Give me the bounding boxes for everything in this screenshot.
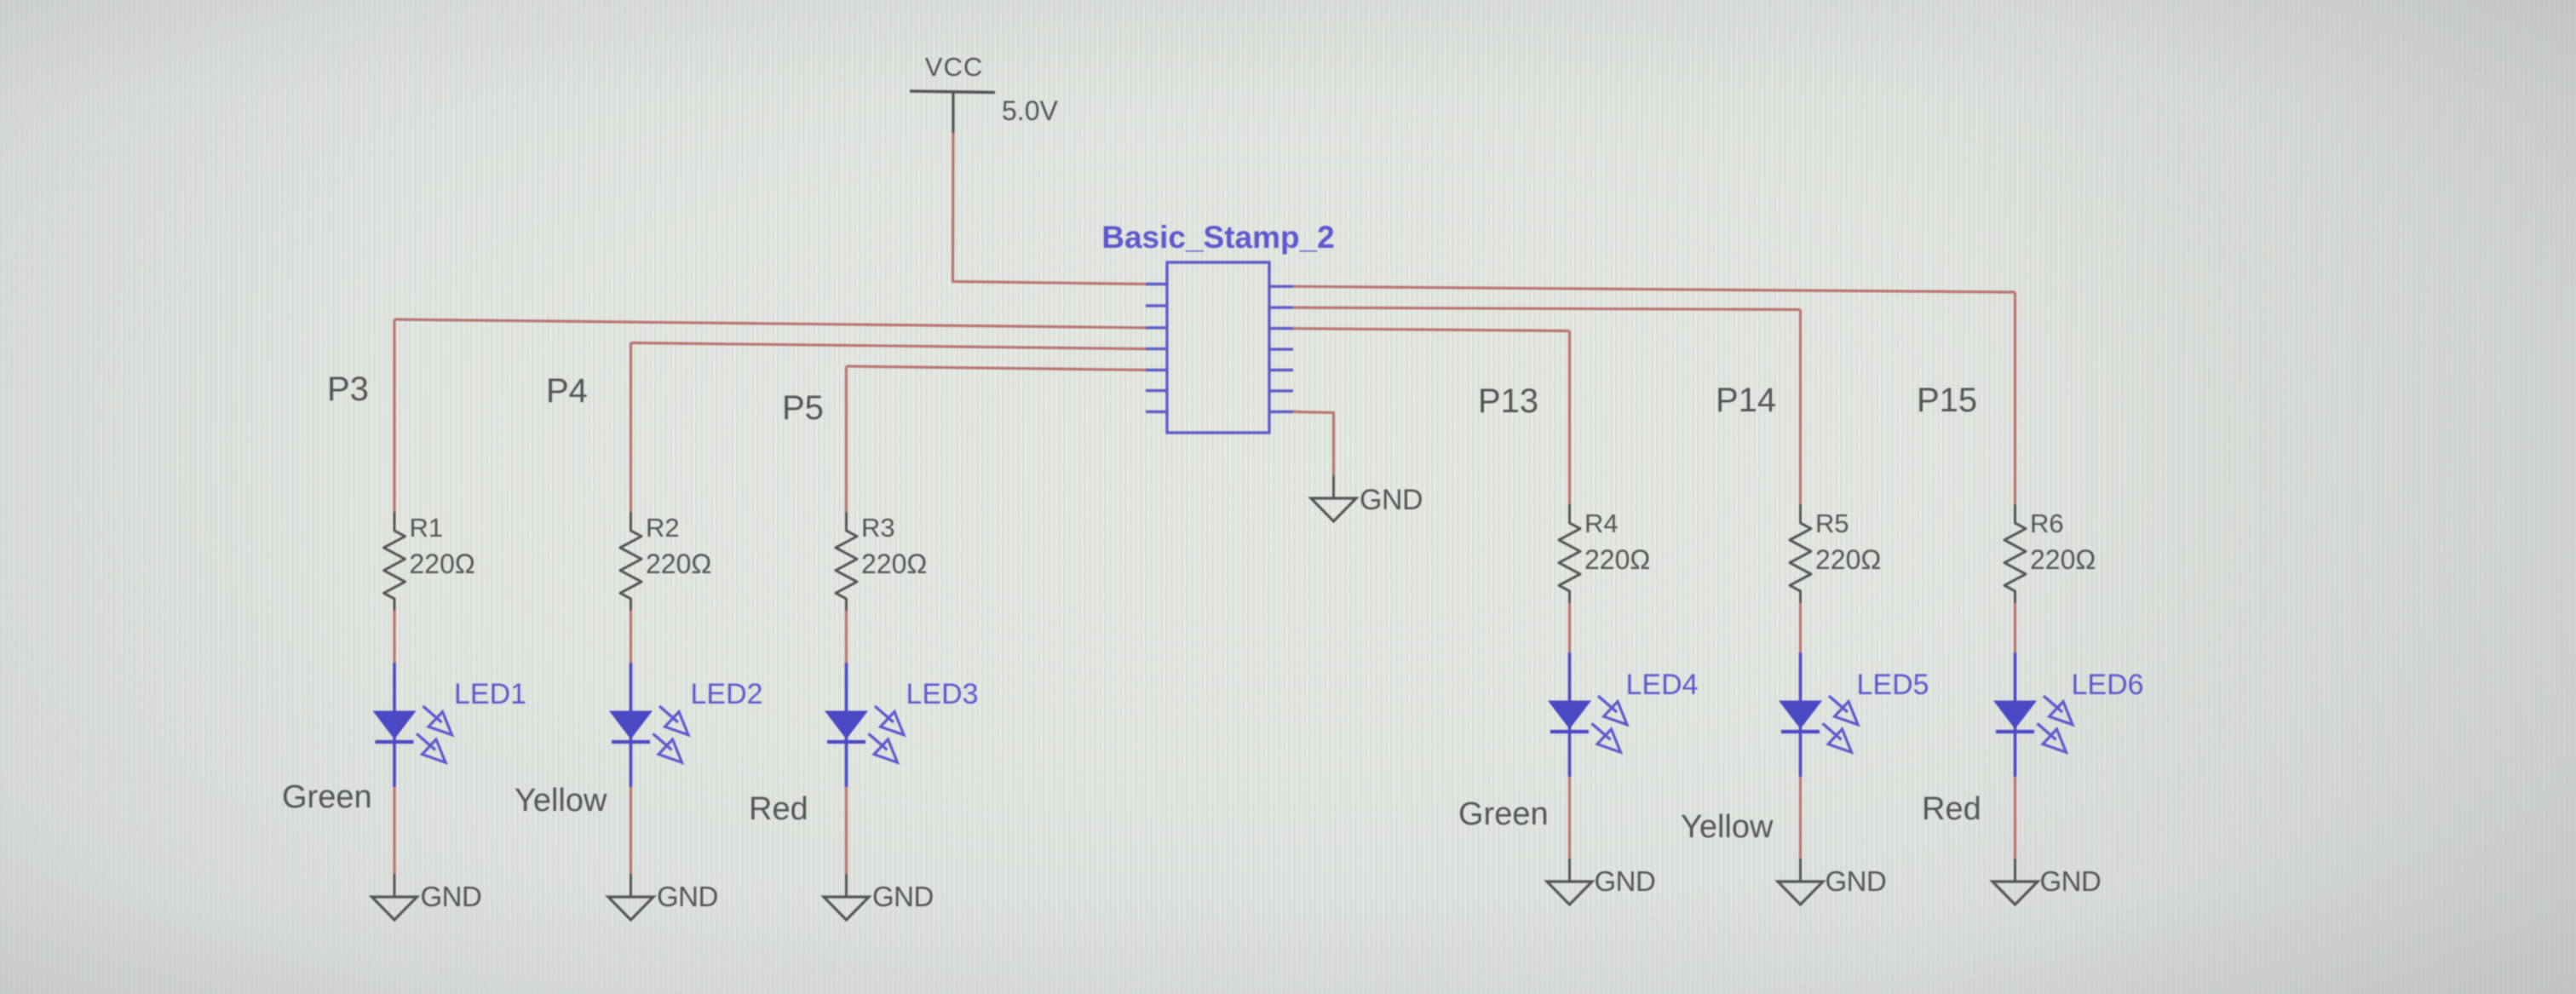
wire LED4 to ground [1568, 777, 1571, 859]
wire R6 to LED6 [2014, 603, 2016, 652]
LED LED5 [1780, 652, 1929, 777]
wire P5 from U1 [847, 366, 1147, 370]
LED LED6 [1994, 652, 2144, 777]
wire LED6 to ground [2014, 777, 2016, 859]
wire P4 down to R2 [630, 343, 632, 513]
resistor R4 [1559, 504, 1650, 603]
ground below LED6 [1992, 859, 2101, 905]
wire R1 to LED1 [393, 611, 395, 663]
resistor R6 [2004, 504, 2096, 603]
wire P3 from U1 [394, 319, 1146, 328]
wire R2 to LED2 [630, 611, 632, 663]
ground below LED5 [1778, 859, 1886, 905]
wire P13 down to R4 [1568, 331, 1571, 505]
resistor R5 [1790, 504, 1881, 603]
wire P14 from U1 [1293, 307, 1801, 309]
wire P5 down to R3 [845, 366, 848, 512]
resistor R2 [620, 512, 711, 611]
wire P15 from U1 [1293, 286, 2015, 292]
ground at U1 [1311, 475, 1423, 521]
wire P14 down to R5 [1799, 310, 1802, 505]
ground below LED1 [372, 874, 482, 920]
resistor R3 [836, 512, 927, 611]
power rail VCC symbol [910, 52, 1058, 133]
U1 right pins [1269, 286, 1293, 411]
wire LED5 to ground [1799, 777, 1802, 859]
LED LED3 [825, 663, 979, 787]
U1 left pins [1146, 284, 1167, 412]
wire R3 to LED3 [845, 611, 848, 663]
wire P3 down to R1 [393, 319, 395, 512]
wire R4 to LED4 [1568, 603, 1571, 652]
ground below LED4 [1547, 859, 1655, 905]
wire P13 from U1 [1293, 329, 1570, 331]
wire VCC to U1 pin (left pin 1) [953, 133, 1147, 284]
LED LED2 [610, 663, 763, 787]
wire LED3 to ground [845, 787, 848, 874]
LED LED1 [374, 663, 527, 787]
resistor R1 [384, 512, 475, 611]
wire LED2 to ground [630, 787, 632, 874]
op IC U1 Basic_Stamp_2 body [1101, 220, 1335, 433]
wire U1 to ground [1293, 411, 1334, 475]
wire LED1 to ground [393, 787, 395, 874]
ground below LED2 [608, 874, 718, 920]
wire P4 from U1 [631, 343, 1147, 349]
wire R5 to LED5 [1799, 603, 1802, 652]
wire P15 down to R6 [2014, 292, 2016, 504]
ground below LED3 [824, 874, 934, 920]
LED LED4 [1549, 652, 1699, 777]
